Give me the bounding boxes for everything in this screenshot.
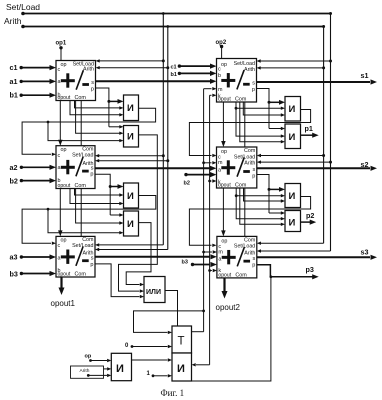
svg-text:p: p [91,87,94,93]
wire p stub D1 in1 [109,100,119,102]
wire 1 to D11 [152,374,155,377]
wire D8 in1 stub [269,212,281,214]
wire Set/Load bus right [330,14,332,252]
wire U1 Set/Load feed [100,60,164,62]
svg-text:И: И [127,219,134,230]
wire op to D10 [91,360,108,362]
svg-text:c1: c1 [10,63,18,72]
svg-text:m: m [218,87,223,93]
wire a2 arrow [20,166,23,169]
svg-text:m: m [218,249,223,255]
wire U1 opout to U3 op [59,101,61,142]
svg-text:a2: a2 [10,163,18,172]
svg-text:c: c [58,67,61,73]
wire D5 out to U5.c [22,196,156,244]
svg-text:op: op [221,149,227,155]
svg-text:p: p [90,262,93,268]
wire U6.k stub [210,270,212,272]
svg-text:opout: opout [218,272,231,278]
svg-text:И: И [116,363,124,375]
svg-text:op: op [61,147,67,153]
wire b2 arrow [20,179,23,182]
svg-text:Com: Com [75,272,87,278]
adder U6 (+/-) [217,236,257,278]
svg-text:a: a [218,256,221,262]
svg-text:b2: b2 [10,177,18,186]
svg-text:op: op [221,62,227,68]
wire D6 out to OR in1 [126,223,151,285]
svg-text:p: p [252,262,255,268]
wire D11 out loop [192,277,271,381]
wire U3 Com to U5 Com [80,189,82,237]
svg-text:a: a [58,255,61,261]
svg-text:И: И [289,218,296,229]
trigger T1 (Т) [172,326,192,353]
wire D1 in3 [70,101,120,115]
and gate D3 [285,97,301,122]
svg-text:И: И [127,103,134,114]
wire D1 in2 [75,101,120,108]
wire Arith to D10 a [104,368,108,370]
svg-text:p3: p3 [306,265,314,274]
wire Arith bus left [167,27,169,250]
wire U2 opout to U4 op [222,102,224,143]
wire D2 out to OR in2 [119,135,158,291]
wire U5 Arith feed [99,249,168,251]
wire U4 opout to U6 op [222,188,224,232]
svg-text:a: a [58,165,61,171]
wire Arith main [23,26,324,28]
svg-text:Com: Com [75,95,87,101]
wire D5 in3 [70,189,120,204]
wire a3 arrow [20,255,23,258]
wire U2.m stub [204,88,212,90]
wire D3 out to U4.c [189,110,310,156]
svg-text:opout: opout [218,97,231,103]
wire b1' arrow [178,72,181,75]
wire U3 Arith feed [99,160,168,162]
svg-text:p: p [90,172,93,178]
wire U3.s to U4 [95,167,210,169]
wire p stub D7 in1 [269,188,280,190]
svg-text:Arith: Arith [244,67,255,73]
wire b3' arrow [191,263,194,266]
svg-text:a: a [58,79,61,85]
wire U6 Set/Load feed [261,242,324,244]
svg-text:И: И [289,191,296,202]
wire U5 Set/Load feed [99,244,163,246]
svg-text:a: a [218,167,221,173]
and gate D6 [124,211,139,236]
svg-text:op: op [85,354,92,360]
svg-text:Arith: Arith [80,368,90,374]
wire U1 Arith feed [100,67,168,69]
wire p stub D3 in1 [269,101,280,103]
wire D2 in1 stub [109,126,120,128]
svg-text:p2: p2 [306,211,314,220]
wire U2.p to D3/D4 [257,89,270,129]
and gate D8 [285,211,301,232]
svg-text:ИЛИ: ИЛИ [146,289,161,296]
wire U1 Com to U3 Com [80,101,82,146]
svg-text:b: b [218,73,221,79]
wire D7 in2 [236,188,281,219]
wire k chain vertical [209,95,211,365]
wire s1 out [257,81,371,83]
wire D3 in3 [243,102,281,115]
svg-text:Com: Com [235,97,247,103]
svg-text:И: И [127,132,134,143]
wire U4.p to D7/D8 [257,175,269,214]
wire D6 in2 [76,189,120,224]
svg-text:opout: opout [218,183,231,189]
and gate D7 [285,184,301,208]
wire p stub D5 in1 [110,186,118,188]
wire D8 in3 [240,188,281,224]
wire D6 in3 [48,209,120,233]
port Arith box [71,366,104,378]
svg-text:op1: op1 [56,41,67,47]
svg-text:s: s [91,80,94,86]
svg-text:И: И [289,132,296,143]
svg-text:c1: c1 [171,65,177,71]
svg-text:s: s [91,256,94,262]
wire D4 in3 [240,102,281,142]
wire U1.p to D1/D2 [96,88,109,127]
svg-text:Com: Com [235,272,247,278]
wire b1 arrow [20,94,23,97]
output opout2 arrow [223,278,225,293]
svg-text:p: p [252,87,255,93]
wire bus corner SetLoad left [162,244,164,246]
svg-text:op: op [61,62,67,68]
wire T-out chain vertical [203,89,205,332]
wire U3.p to D5/D6 [95,174,110,215]
wire p1 out [301,134,313,136]
wire OR out to T top [165,291,178,327]
svg-text:opout1: opout1 [51,299,76,308]
svg-text:s: s [91,165,94,171]
and gate D1 [124,95,139,121]
svg-text:opout: opout [58,183,71,189]
wire D5 in2 [75,189,120,196]
and gate D4 [285,124,301,149]
svg-text:c: c [58,243,61,249]
wire D2 in2 [76,101,120,134]
wire U5.p to OR in3 [95,264,140,297]
svg-text:Com: Com [75,183,87,189]
svg-text:b1: b1 [171,72,177,78]
svg-text:Т: Т [178,336,185,348]
wire U5.s to U6 [95,256,210,258]
wire s2 out [257,167,370,169]
svg-text:Com: Com [244,148,256,154]
wire op1 to U1 [59,46,62,49]
svg-text:b3: b3 [182,260,188,266]
svg-text:Arith: Arith [4,16,22,26]
wire U2 Set/Load feed [261,60,331,62]
wire 0 to T [131,345,134,348]
or gate D9 (ИЛИ) [144,277,165,303]
wire D1 out to U3.c [22,108,156,154]
wire op2 to U2 [220,45,223,48]
wire Set/Load bus left [162,14,164,245]
svg-text:И: И [289,104,296,115]
svg-text:Фиг. 1: Фиг. 1 [161,388,185,398]
wire U2 Arith feed [261,67,324,69]
svg-text:a3: a3 [10,253,18,262]
wire D4 in1 stub [269,128,281,130]
wire U6.p to p3 [257,265,313,277]
wire D7 in3 [244,188,282,201]
wire U3 opout to U5 op [59,189,61,233]
svg-text:a1: a1 [10,77,18,86]
adder U1 (+/-) [56,61,96,102]
and gate D10 (И bottom left) [111,353,131,380]
svg-text:opout: opout [58,95,71,101]
and gate D11 (И bottom right) [172,353,192,381]
wire U3 Set/Load feed [99,155,163,157]
output opout1 arrow [60,277,62,289]
svg-text:s: s [253,256,256,262]
svg-text:b2: b2 [184,180,190,186]
svg-text:p1: p1 [305,124,313,133]
svg-text:Com: Com [235,183,247,189]
svg-text:opout: opout [58,272,71,278]
svg-text:И: И [127,191,134,202]
svg-text:s1: s1 [361,71,369,80]
svg-text:op: op [61,238,67,244]
adder U3 (+/-) [56,146,95,189]
wire U2 Com to U4 Com [244,102,246,147]
wire c1 arrow [20,66,23,69]
svg-text:p: p [252,173,255,179]
svg-text:b3: b3 [10,270,18,279]
and gate D5 [124,183,139,208]
wire U4 Com to U6 Com [244,188,246,236]
wire U4.m stub [204,162,212,164]
wire T feedback staple [192,331,204,333]
svg-text:Arith: Arith [244,161,255,167]
svg-text:И: И [177,363,185,375]
svg-text:m: m [218,160,223,166]
wire Set/Load main [23,13,331,15]
svg-text:c: c [58,153,61,159]
svg-text:opout2: opout2 [216,303,241,312]
wire U4 Arith feed [261,161,331,163]
wire k chain to D11 [196,364,210,366]
svg-text:b1: b1 [10,91,18,100]
svg-text:c: c [218,67,221,73]
wire U6.m stub [204,251,212,253]
adder U2 (+/-) [217,59,257,103]
wire b2' arrow [184,173,187,176]
wire U6 Arith feed [261,250,331,252]
wire c1' arrow [178,64,181,67]
svg-text:s3: s3 [361,248,369,257]
wire U4 Set/Load feed [261,155,324,157]
and gate D2 [124,126,139,148]
wire D2 in3 [48,122,120,141]
svg-text:s: s [252,81,255,87]
wire D6 in1 stub [110,214,119,216]
wire p2 out [301,221,311,223]
wire U4.k stub [210,180,212,182]
adder U4 (+/-) [217,147,257,189]
svg-text:s: s [253,167,256,173]
svg-text:Arith: Arith [83,67,94,73]
wire Arith to D10 b [88,374,107,376]
wire Arith bus right [323,27,325,244]
adder U5 (+/-) [56,236,95,277]
wire U1.s to U2 [96,80,211,82]
wire s3 out [257,256,370,258]
svg-text:Set/Load: Set/Load [6,2,40,12]
wire D7 out to U6.c [189,197,310,246]
wire D10 out to D11 [132,359,168,361]
wire D3 in2 [236,102,281,136]
svg-text:op: op [221,238,227,244]
wire b3 arrow [20,272,23,275]
wire a1 arrow [20,80,23,83]
wire U2.k stub [210,94,212,96]
